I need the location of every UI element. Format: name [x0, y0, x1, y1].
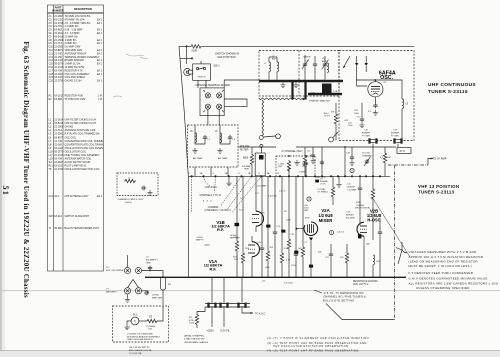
tube V2A envelope — [304, 222, 318, 236]
svg-text:AMP: AMP — [322, 60, 327, 63]
label VHF 13 position tuner — [418, 184, 459, 194]
wire L18 bottom — [372, 265, 374, 278]
label C8 — [152, 295, 163, 300]
label A7L4 DK FT — [324, 112, 331, 118]
inductor L6 — [215, 131, 222, 143]
svg-text:(CHANNELS 7-13 ONLY): (CHANNELS 7-13 ONLY) — [205, 209, 231, 212]
svg-text:T5: T5 — [49, 168, 52, 171]
wire F2 down — [223, 308, 225, 328]
IF output arrow — [428, 158, 433, 166]
label V2A — [318, 208, 333, 223]
svg-text:(4)–(6) TEST POINT UHF RF BAND: (4)–(6) TEST POINT UHF RF BAND PASS OBSE… — [267, 348, 359, 352]
wire F3 up — [241, 277, 243, 303]
dashed box channels 2-3 trap — [117, 173, 158, 196]
svg-text:TUNER S-23113: TUNER S-23113 — [418, 190, 455, 195]
svg-text:1500: 1500 — [291, 265, 296, 267]
resistor — [287, 176, 290, 277]
svg-text:GMV: GMV — [265, 267, 270, 269]
svg-text:C2: C2 — [146, 257, 150, 259]
wire switch drop — [186, 46, 188, 64]
svg-text:800MMF: 800MMF — [362, 133, 371, 135]
svg-text:(FRONT KNOB): (FRONT KNOB) — [355, 207, 370, 209]
resistor osc cathode — [340, 244, 349, 277]
UHF line bar link — [293, 82, 306, 100]
svg-text:MOUNTING BRACKET ASSEMBLY: MOUNTING BRACKET ASSEMBLY — [127, 335, 161, 338]
UHF line bar lower — [308, 93, 342, 96]
capacitor mixer grid — [358, 186, 362, 191]
svg-text:SWITCH SLIDE DPDT: SWITCH SLIDE DPDT — [65, 215, 90, 218]
wire box1 caps to bar — [305, 56, 325, 80]
svg-text:180V: 180V — [305, 218, 310, 220]
fan diagonal 1 — [221, 176, 242, 205]
svg-text:C20 2.2: C20 2.2 — [337, 232, 345, 234]
svg-text:R9: R9 — [284, 211, 288, 213]
svg-text:R.F.: R.F. — [217, 227, 224, 232]
parts table sparse rows — [49, 195, 103, 230]
label metal strapped — [184, 335, 209, 344]
svg-text:AD TRAP: AD TRAP — [193, 157, 203, 160]
svg-text:1/2W: 1/2W — [189, 323, 195, 325]
label VC osc trimmer — [362, 153, 372, 158]
voltages note pointer — [396, 242, 407, 264]
svg-text:C14: C14 — [277, 226, 282, 228]
resistor osc grid leak — [371, 176, 374, 240]
wire wafer ground stub — [228, 176, 230, 180]
capacitor — [294, 176, 298, 277]
wire pilot gnd — [127, 321, 131, 325]
svg-text:63-1017: 63-1017 — [54, 95, 64, 98]
svg-text:V2: V2 — [106, 267, 109, 269]
mechanical link sawtooth vertical — [262, 100, 264, 136]
VHF tuner top rail — [188, 175, 390, 177]
capacitor C8 — [144, 291, 149, 295]
svg-text:T1: T1 — [49, 227, 52, 230]
switch SW1 body — [193, 61, 211, 80]
svg-text:PL1: PL1 — [133, 314, 138, 317]
svg-text:UNDER MAIN CHASSIS: UNDER MAIN CHASSIS — [184, 341, 209, 344]
label V1B — [211, 220, 230, 232]
svg-text:10%: 10% — [234, 259, 238, 261]
wire board to UHF bus — [224, 80, 259, 88]
svg-text:L1B: L1B — [334, 91, 338, 93]
wire left edge vertical — [179, 46, 188, 176]
wire L9 bottom — [401, 109, 403, 141]
ground left edge — [125, 297, 130, 302]
svg-text:ANT: ANT — [272, 58, 277, 61]
node switch stub — [191, 57, 193, 59]
svg-text:UHF OSCILLATOR EXCITATION OBSE: UHF OSCILLATOR EXCITATION OBSERVATION — [273, 344, 349, 348]
resistor channels trap — [124, 178, 136, 183]
feedthrough strip bar — [205, 304, 250, 308]
VHF tuner left edge — [187, 176, 189, 277]
svg-text:4700: 4700 — [189, 320, 195, 322]
label bias note — [323, 291, 366, 302]
svg-text:TO I.F. AMP: TO I.F. AMP — [433, 156, 447, 160]
label 6AF4A OSC — [379, 70, 396, 81]
svg-text:R.F. PLATE COIL TRIMMED 5%: R.F. PLATE COIL TRIMMED 5% — [65, 133, 101, 136]
svg-text:A7L4: A7L4 — [324, 112, 330, 115]
svg-text:47K: 47K — [331, 112, 335, 114]
svg-text:ON C-40-HG SWT R2: ON C-40-HG SWT R2 — [129, 347, 150, 349]
capacitor feedthrough F1 — [208, 303, 217, 308]
svg-text:T: T — [134, 320, 137, 324]
ground mixer — [294, 160, 299, 165]
UHF RF section dashed box — [259, 51, 339, 97]
svg-text:MMF GMV: MMF GMV — [230, 237, 240, 239]
svg-text:800 MMF FT: 800 MMF FT — [146, 260, 159, 262]
svg-text:VC-OSC: VC-OSC — [362, 153, 371, 155]
wire shaft down — [260, 148, 262, 154]
svg-text:SWITCH: SWITCH — [198, 77, 206, 79]
pilot lamp PL1 — [131, 317, 139, 325]
svg-text:CHANNEL NO, FINE TUNER &: CHANNEL NO, FINE TUNER & — [323, 295, 366, 299]
wire F1 up — [211, 277, 213, 303]
svg-text:4: 4 — [212, 173, 214, 175]
ground UHF bar 2 — [293, 82, 298, 87]
wire switch to board right — [205, 80, 207, 88]
svg-text:EA 1: EA 1 — [97, 63, 103, 66]
svg-text:800MMF: 800MMF — [391, 133, 400, 135]
label 470K 10% — [233, 257, 238, 261]
capacitor C7 blob — [315, 180, 319, 183]
svg-text:21-745: 21-745 — [54, 140, 62, 143]
tube V2A electrodes — [296, 224, 314, 248]
wire switch stub — [180, 57, 193, 59]
ground UHF bar 1 — [280, 82, 285, 87]
tube socket V1 pair — [124, 288, 141, 294]
label 75 ohms — [146, 326, 156, 331]
svg-text:FT GMV: FT GMV — [391, 136, 399, 138]
wire police filter out 2 — [194, 167, 196, 176]
label C3 800 MMF FT — [196, 237, 204, 241]
svg-text:1.5-8: 1.5-8 — [239, 210, 244, 212]
UHF mixer crystal block — [322, 84, 332, 95]
svg-text:C23: C23 — [354, 110, 359, 112]
wire socket peak — [128, 280, 139, 288]
UHF line bar upper — [259, 80, 343, 83]
switch wafer terminals — [191, 175, 381, 177]
svg-text:RESISTOR 4700: RESISTOR 4700 — [65, 95, 84, 98]
svg-text:APPROX 10K Ω V.T.V.M ISOLATIO: APPROX 10K Ω V.T.V.M ISOLATION RESISTOR — [409, 255, 484, 259]
svg-text:22-1506: 22-1506 — [54, 126, 64, 129]
svg-text:-2.5 TO -7V DEPENDING ON: -2.5 TO -7V DEPENDING ON — [323, 291, 364, 295]
wire L9 top — [356, 80, 402, 99]
svg-text:100K: 100K — [286, 220, 291, 222]
wire C25 drop — [372, 144, 374, 177]
diagonal mechanical link — [372, 197, 410, 257]
wire L1 to bar — [269, 57, 277, 80]
wire police filter out — [210, 167, 212, 176]
wire V1 socket link — [142, 291, 148, 293]
wire V2A cathode — [310, 248, 312, 277]
capacitor C5 trimmer — [322, 60, 329, 70]
wire V2 socket to L3 — [142, 271, 163, 278]
svg-text:L9: L9 — [406, 104, 409, 106]
VHF shield chain border top — [388, 164, 428, 166]
wire mixer grid — [359, 176, 361, 186]
svg-text:22K: 22K — [261, 213, 265, 215]
svg-text:10: 10 — [277, 173, 280, 175]
scan left edge shading — [0, 0, 2, 357]
svg-text:R2: R2 — [149, 316, 153, 319]
label police filter — [240, 145, 250, 152]
svg-text:±10%: ±10% — [302, 166, 307, 168]
wire R2 out — [158, 306, 163, 321]
svg-text:L7: L7 — [128, 178, 131, 180]
svg-text:GMV: GMV — [278, 166, 283, 168]
svg-text:3-9: 3-9 — [368, 111, 372, 113]
resistor — [241, 176, 244, 277]
label located on tuner — [127, 333, 161, 342]
svg-text:C11 1500: C11 1500 — [284, 283, 293, 285]
wire V1A cathode — [251, 262, 253, 277]
resistor IF channel — [287, 160, 308, 172]
svg-text:L10: L10 — [322, 58, 326, 60]
switch SW1 phono jack — [184, 69, 193, 76]
svg-text:470K: 470K — [245, 248, 250, 250]
svg-text:1 9T: 1 9T — [383, 82, 388, 84]
page fold line middle — [0, 290, 500, 292]
svg-text:1 MEG: 1 MEG — [299, 172, 306, 174]
ground trap1 — [192, 148, 197, 153]
svg-text:22-2790: 22-2790 — [54, 80, 64, 83]
svg-text:22-2790: 22-2790 — [54, 168, 64, 171]
svg-text:GMV: GMV — [244, 169, 249, 171]
svg-text:C15 5: C15 5 — [257, 242, 263, 244]
tube V3 electrodes — [371, 79, 380, 103]
svg-text:R.F.: R.F. — [210, 266, 217, 271]
wire osc lower — [335, 125, 337, 141]
capacitor V2B fine tune — [378, 218, 382, 277]
svg-text:GMV: GMV — [304, 210, 309, 212]
svg-text:95-990: 95-990 — [54, 227, 62, 230]
svg-text:CHANNEL BRACKET: CHANNEL BRACKET — [309, 100, 331, 103]
wire trap2 — [220, 125, 230, 144]
ground trap2 — [217, 148, 222, 153]
svg-text:1A 800F: 1A 800F — [347, 186, 355, 189]
label C2 feedthrough — [146, 257, 159, 265]
svg-text:VHF 13 POSITION: VHF 13 POSITION — [418, 184, 459, 189]
tube V2B envelope — [357, 222, 364, 236]
inductor L1 loop b — [277, 62, 279, 72]
svg-text:USED ON SOME MODELS: USED ON SOME MODELS — [127, 339, 153, 341]
inductor L1 loop a — [264, 62, 271, 72]
svg-text:V1: V1 — [106, 289, 109, 291]
svg-text:7.25 MMF: 7.25 MMF — [347, 190, 357, 192]
svg-text:R2: R2 — [49, 98, 53, 101]
svg-text:63-5416: 63-5416 — [54, 122, 64, 125]
svg-text:4.7K: 4.7K — [286, 260, 291, 262]
box 27.6 — [397, 148, 411, 154]
svg-text:1 W: 1 W — [98, 98, 103, 101]
svg-text:EA 1: EA 1 — [97, 80, 103, 83]
svg-text:63-590: 63-590 — [54, 98, 62, 101]
node rail a — [344, 146, 346, 148]
resistor R1 — [195, 307, 205, 328]
wire osc grid drop — [359, 191, 361, 225]
svg-text:ANTENNA TERMINAL BOARD: ANTENNA TERMINAL BOARD — [195, 84, 230, 87]
UHF shaft lower node — [260, 145, 263, 148]
svg-text:CHANNELS 2 AND 3 ONLY: CHANNELS 2 AND 3 ONLY — [118, 198, 144, 201]
svg-text:10K: 10K — [387, 157, 391, 159]
svg-text:1 W: 1 W — [98, 95, 103, 98]
svg-text:2: 2 — [188, 173, 190, 175]
svg-text:RESISTANCE ACROSS: RESISTANCE ACROSS — [353, 280, 378, 283]
parts table rows block 1 — [49, 15, 103, 83]
wire V2B cathode — [363, 247, 365, 277]
svg-text:±7.5%: ±7.5% — [320, 184, 326, 186]
svg-text:GMV: GMV — [146, 263, 151, 265]
svg-text:22-2847: 22-2847 — [54, 161, 64, 164]
diode CR2 — [365, 56, 368, 72]
test point circle 5 — [350, 168, 354, 172]
svg-text:220: 220 — [291, 234, 295, 236]
wire C23 — [361, 103, 363, 117]
bias note pointer — [314, 290, 322, 293]
capacitor osc trimmer — [364, 157, 371, 167]
mechanical link sawtooth horizontal — [259, 98, 303, 100]
svg-text:VOLTAGES MEASURED WITH V.T.V.M: VOLTAGES MEASURED WITH V.T.V.M AND — [409, 250, 477, 254]
svg-text:LOCATED ON TUNER AND: LOCATED ON TUNER AND — [127, 333, 153, 336]
capacitor channels trap — [141, 186, 153, 195]
svg-text:TUNER S-23115: TUNER S-23115 — [428, 89, 468, 95]
label L2 ANT — [272, 56, 277, 61]
capacitor trap 1 — [203, 135, 211, 141]
wire F1 down — [211, 308, 213, 328]
wire switch to board left — [197, 80, 199, 88]
label test point notes — [267, 336, 369, 352]
svg-text:(V.H.F.): (V.H.F.) — [125, 202, 132, 204]
svg-text:FINE TUNING COIL ASSEMBLY: FINE TUNING COIL ASSEMBLY — [65, 154, 101, 157]
component value labels — [234, 193, 308, 269]
svg-text:UHF POSITION: UHF POSITION — [217, 55, 236, 59]
wire V1B plate — [255, 176, 257, 205]
label L9 trap shield — [318, 188, 329, 194]
svg-text:C8 800: C8 800 — [152, 295, 160, 297]
ground wafer — [226, 181, 231, 186]
wire osc grid — [357, 72, 368, 86]
pilot dashed box — [113, 306, 169, 342]
svg-text:H-OSC: H-OSC — [367, 218, 380, 223]
svg-text:SERIES: SERIES — [346, 215, 354, 217]
svg-text:9A: 9A — [267, 172, 270, 175]
svg-text:6: 6 — [238, 173, 240, 175]
svg-text:C1A: C1A — [49, 195, 54, 198]
capacitor C3 trimmer — [302, 60, 309, 70]
svg-text:GREEN: GREEN — [303, 57, 311, 59]
svg-text:FILTER: FILTER — [240, 149, 249, 152]
svg-text:+250V: +250V — [207, 329, 215, 332]
fan dashed drop — [191, 176, 193, 212]
svg-text:C17: C17 — [255, 193, 260, 195]
fan curve 1 — [204, 176, 212, 186]
svg-text:MUST BE SHORT, 1 IN HIGH OR LE: MUST BE SHORT, 1 IN HIGH OR LESS ) — [409, 264, 473, 268]
inductor L9 — [402, 99, 409, 109]
svg-text:C17 47: C17 47 — [279, 191, 286, 193]
capacitor feedthrough F2 — [220, 303, 229, 308]
svg-text:Fig. 63 Schematic Diagram UHF: Fig. 63 Schematic Diagram UHF-VHF Tuner … — [22, 42, 29, 298]
svg-text:C20: C20 — [49, 80, 54, 83]
svg-text:L17: L17 — [357, 117, 361, 119]
capacitor trap 2 — [228, 135, 236, 141]
svg-text:S-1: S-1 — [49, 161, 53, 164]
tube V1A envelope — [252, 242, 260, 257]
svg-text:G.M.V DENOTES GUARANTEED MINIM: G.M.V DENOTES GUARANTEED MINIMUM VALUE — [409, 276, 488, 280]
svg-text:7.5: 7.5 — [232, 139, 236, 141]
svg-text:MIXER: MIXER — [319, 218, 334, 223]
svg-text:TO A.G.C: TO A.G.C — [255, 312, 266, 315]
resistor 6800 — [250, 154, 253, 166]
svg-text:6800: 6800 — [243, 158, 249, 160]
capacitor C25 feedthrough — [369, 139, 378, 144]
svg-text:C13: C13 — [346, 212, 351, 214]
scan smudge noise — [113, 54, 148, 97]
svg-text:L6: L6 — [215, 131, 218, 133]
ground C23 — [359, 122, 364, 127]
capacitor osc plate — [373, 103, 377, 108]
wire 47K — [335, 103, 337, 113]
resistor mixer plate — [299, 147, 307, 176]
inductor L5 — [190, 131, 197, 143]
svg-text:L1: L1 — [264, 63, 267, 65]
svg-text:DESCRIPTION: DESCRIPTION — [74, 7, 92, 11]
svg-text:47: 47 — [305, 242, 308, 244]
svg-text:6.3V FIL: 6.3V FIL — [221, 329, 231, 332]
label C29 feedthrough — [391, 130, 400, 138]
svg-text:63-410: 63-410 — [54, 215, 62, 218]
svg-text:22-2: 22-2 — [54, 195, 60, 198]
label change note — [129, 347, 152, 355]
fan diagonal 2 — [227, 176, 252, 209]
UHF oscillator dashed box — [339, 51, 414, 141]
tube V2B electrodes — [358, 226, 367, 247]
svg-text:SW 1: SW 1 — [214, 65, 221, 68]
capacitor C29 feedthrough — [394, 139, 403, 144]
svg-text:R1: R1 — [189, 317, 193, 319]
svg-text:TRIMMER: TRIMMER — [362, 156, 372, 158]
label C13 series — [346, 212, 355, 220]
tube V1B electrodes — [235, 205, 260, 232]
svg-text:OSCILLATOR INJECTION COIL: OSCILLATOR INJECTION COIL — [65, 168, 101, 171]
capacitor mixer out — [325, 244, 333, 277]
label L8 800 MMF GMV — [230, 235, 240, 239]
svg-text:R.F.: R.F. — [113, 292, 117, 294]
ground pilot — [124, 325, 129, 330]
svg-text:ALL RESISTORS ARE 1/2W CARBON: ALL RESISTORS ARE 1/2W CARBON RESISTORS … — [409, 282, 499, 286]
label voltages note — [409, 250, 499, 290]
svg-text:I F CHANNEL ONLY: I F CHANNEL ONLY — [281, 150, 303, 153]
capacitor — [260, 176, 264, 277]
police filter dashed box — [188, 125, 239, 167]
svg-text:(METAL STRAPPED: (METAL STRAPPED — [184, 335, 205, 338]
capacitor mixer bypass — [315, 160, 325, 179]
fine tuning link corner — [326, 304, 395, 320]
capacitor blob 1 — [281, 230, 285, 233]
label C25 feedthrough — [362, 130, 371, 138]
wire L3 down — [162, 290, 164, 305]
capacitor blob 4 — [309, 265, 313, 268]
UHF tuning shaft node — [259, 136, 263, 140]
label 800 MMF GMV — [242, 166, 252, 171]
ground osc section — [336, 176, 341, 187]
label C22 1500 — [348, 123, 353, 128]
terminal A4 — [217, 104, 224, 112]
svg-text:AND CHANGE 1001-9A: AND CHANGE 1001-9A — [129, 349, 152, 352]
UHF tuning shaft arm — [263, 136, 275, 137]
svg-text:L9: L9 — [49, 147, 52, 150]
resistor R2 — [146, 319, 158, 322]
parts table rows block 3 — [49, 119, 110, 172]
